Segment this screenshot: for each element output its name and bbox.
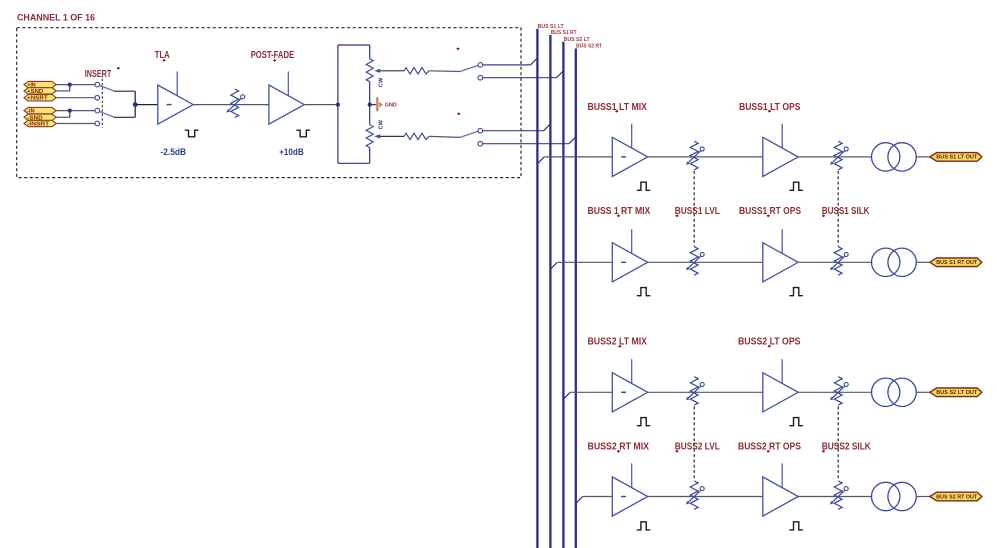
svg-text:BUS S1 LT: BUS S1 LT bbox=[538, 24, 564, 30]
svg-text:BUS S2 LT OUT: BUS S2 LT OUT bbox=[936, 390, 978, 396]
svg-text:-INSRT: -INSRT bbox=[27, 122, 50, 128]
svg-text:BUSS2 SILK: BUSS2 SILK bbox=[822, 442, 872, 453]
svg-text:POST-FADE: POST-FADE bbox=[251, 50, 295, 61]
svg-text:CW: CW bbox=[379, 119, 385, 129]
svg-text:+NSRT: +NSRT bbox=[27, 96, 48, 102]
svg-text:BUS S1 RT OUT: BUS S1 RT OUT bbox=[936, 260, 978, 266]
svg-text:BUSS1 LVL: BUSS1 LVL bbox=[675, 206, 720, 217]
svg-text:CW: CW bbox=[379, 77, 385, 87]
svg-text:INSERT: INSERT bbox=[85, 69, 112, 80]
svg-text:BUSS1 RT OPS: BUSS1 RT OPS bbox=[739, 206, 801, 217]
svg-text:BUSS2 LVL: BUSS2 LVL bbox=[675, 442, 720, 453]
svg-text:BUS S1 LT OUT: BUS S1 LT OUT bbox=[936, 155, 978, 161]
svg-text:CHANNEL 1 OF 16: CHANNEL 1 OF 16 bbox=[17, 12, 95, 22]
svg-text:BUS S2 RT: BUS S2 RT bbox=[576, 44, 602, 50]
svg-text:BUSS1 SILK: BUSS1 SILK bbox=[822, 206, 870, 217]
svg-text:TLA: TLA bbox=[155, 50, 170, 61]
svg-text:BUS S2 RT OUT: BUS S2 RT OUT bbox=[936, 494, 978, 500]
svg-text:-2.5dB: -2.5dB bbox=[160, 147, 186, 157]
svg-text:BUS S1 RT: BUS S1 RT bbox=[551, 30, 577, 36]
svg-text:BUS S2 LT: BUS S2 LT bbox=[564, 37, 590, 43]
svg-text:GND: GND bbox=[385, 103, 397, 109]
svg-text:BUSS2 LT MIX: BUSS2 LT MIX bbox=[588, 337, 648, 348]
svg-text:+10dB: +10dB bbox=[279, 147, 304, 157]
